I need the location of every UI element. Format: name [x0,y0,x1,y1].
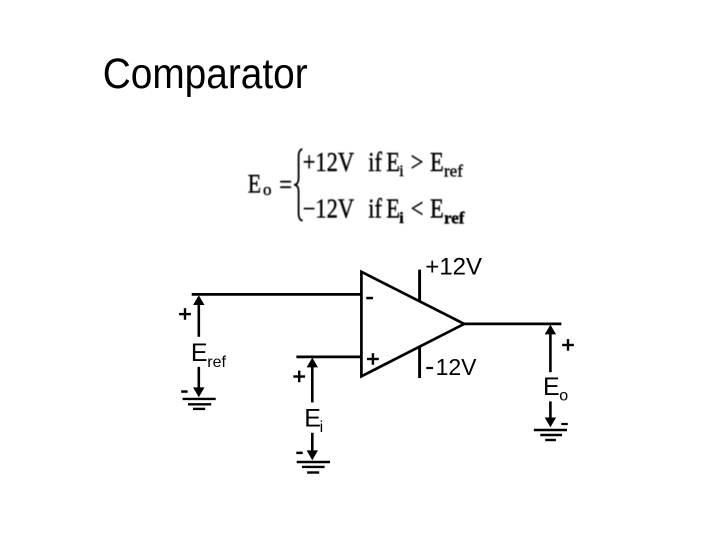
plus polarity of Ei [293,371,305,383]
op-amp U1 triangle [361,272,464,377]
minus polarity of Eref [181,390,187,393]
svg-text:=: = [279,171,292,200]
label Eref [191,339,227,371]
negative supply line [418,346,421,378]
equation brace [294,149,303,221]
source Eref: upper shaft [198,303,201,337]
svg-text:E: E [304,405,321,433]
svg-text:E: E [248,171,261,199]
svg-text:i: i [399,210,404,227]
svg-text:+12V: +12V [303,148,354,177]
svg-text:o: o [263,180,272,199]
svg-text:E: E [430,195,444,224]
source Eo: down arrowhead [545,418,556,428]
svg-text:i: i [399,163,404,180]
source Ei: upper shaft [311,365,314,402]
svg-text:12V: 12V [436,354,478,380]
svg-text:E: E [386,148,400,177]
op-amp inverting input label - [366,297,373,300]
wire: op-amp output [463,323,561,326]
svg-text:E: E [386,195,400,224]
svg-text:ref: ref [207,354,226,371]
source Ei: down arrowhead [307,450,318,460]
svg-text:if: if [368,148,382,177]
svg-text:E: E [543,373,560,401]
svg-text:ref: ref [444,209,465,228]
svg-text:if: if [368,195,382,224]
ground of Ei [297,462,330,473]
minus polarity of Ei [296,452,302,455]
wire: non-inverting input from Ei node to op-amp [296,356,362,359]
wire: inverting input from Eref node to op-amp [192,293,363,296]
source Eo: up arrowhead [545,325,556,335]
source Eo: upper shaft [549,332,552,372]
svg-text:o: o [559,388,568,405]
svg-text:<: < [411,195,424,224]
svg-text:>: > [411,148,424,177]
svg-text:E: E [191,339,208,367]
source Eo: lower shaft [549,401,552,419]
ground of Eref [183,399,216,409]
op-amp non-inverting input label + [367,353,379,365]
label -12V [426,354,477,380]
label Ei [304,405,323,437]
plus polarity of Eo [562,339,574,351]
svg-text:E: E [430,148,444,177]
svg-text:ref: ref [444,162,463,181]
label Eo [543,373,568,405]
source Eref: lower shaft [198,367,201,389]
source Eref: down arrowhead [193,387,204,397]
source Ei: up arrowhead [307,358,318,368]
svg-text:i: i [320,419,324,436]
plus polarity of Eref [179,308,191,320]
svg-text:Comparator: Comparator [103,49,308,97]
source Ei: lower shaft [311,433,314,452]
svg-text:−12V: −12V [303,195,354,224]
minus polarity of Eo [561,423,568,425]
positive supply line [418,270,421,302]
source Eref: up arrowhead [193,295,204,305]
svg-text:+12V: +12V [425,254,482,281]
ground of Eo [534,430,567,440]
